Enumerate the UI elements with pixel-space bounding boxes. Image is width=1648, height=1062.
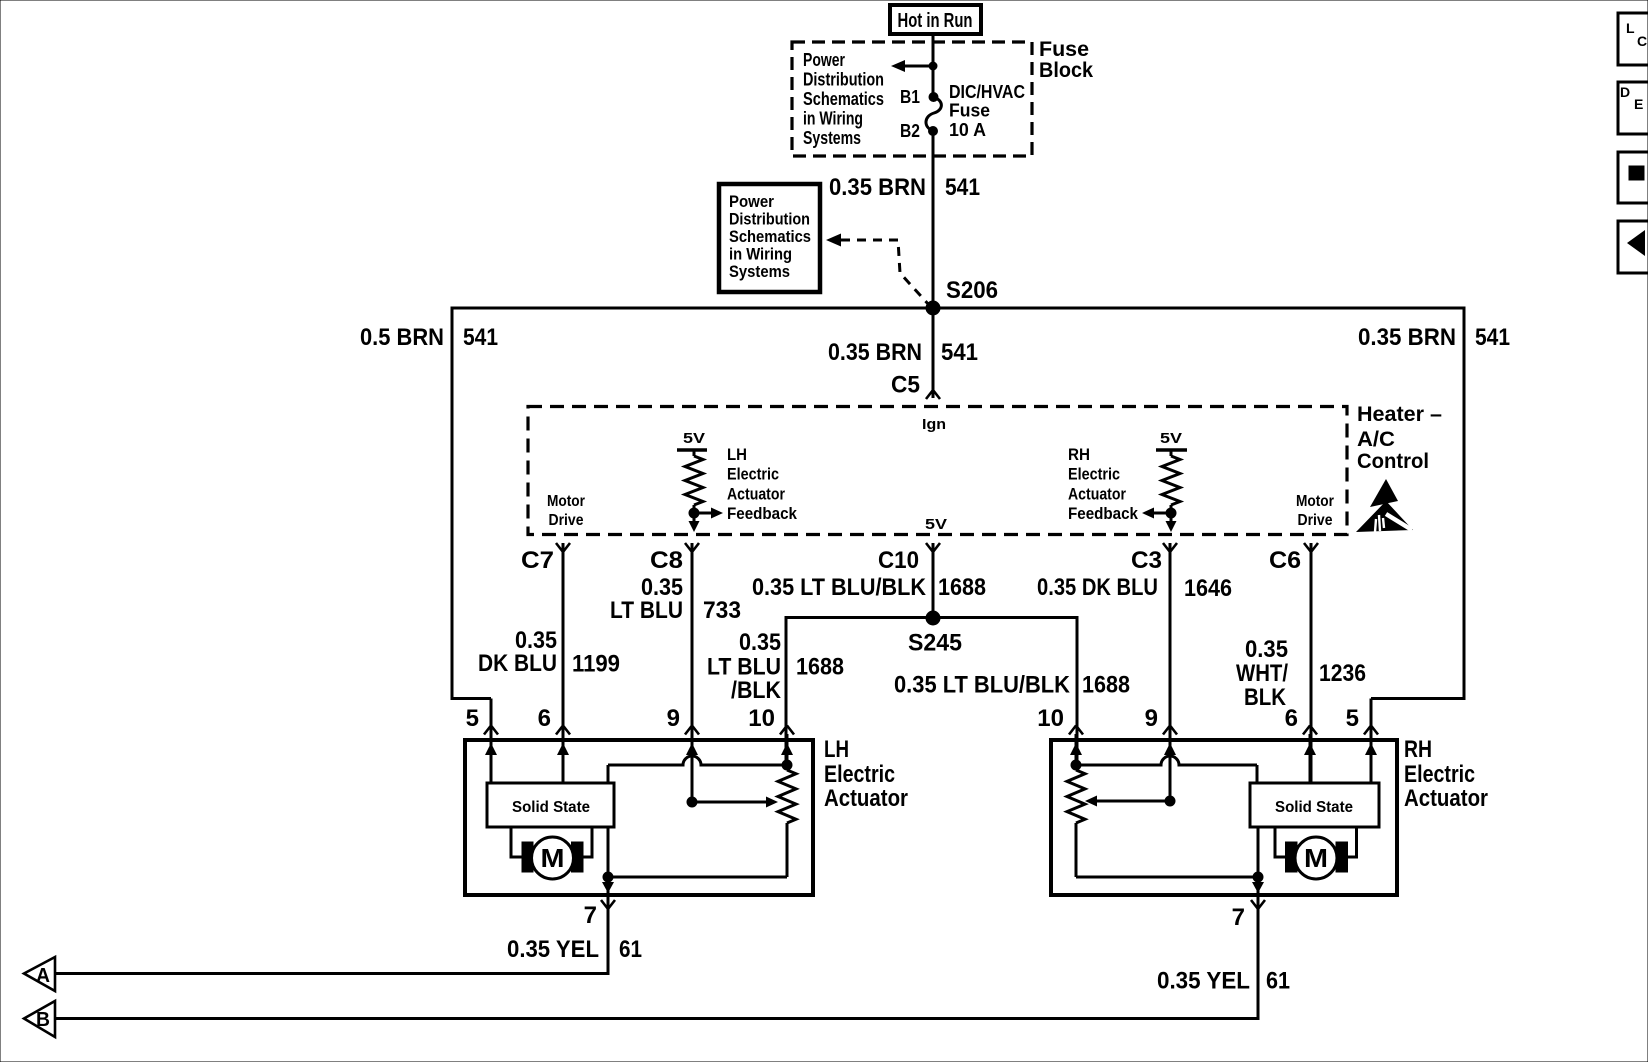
svg-text:Fuse: Fuse [1039,38,1089,61]
svg-text:1236: 1236 [1319,660,1366,687]
svg-text:0.35 BRN: 0.35 BRN [828,339,922,366]
svg-text:1199: 1199 [572,651,620,678]
svg-text:541: 541 [941,339,978,366]
svg-text:0.35 LT BLU/BLK: 0.35 LT BLU/BLK [894,672,1071,699]
svg-text:5V: 5V [683,430,705,447]
svg-text:LH: LH [727,445,747,464]
svg-text:0.5 BRN: 0.5 BRN [360,324,444,351]
svg-text:5: 5 [466,705,479,732]
svg-text:Solid State: Solid State [1275,799,1353,816]
svg-text:0.35 BRN: 0.35 BRN [1358,324,1456,351]
svg-text:5V: 5V [1160,430,1182,447]
svg-text:541: 541 [1475,324,1510,351]
svg-text:Power: Power [803,50,845,70]
svg-text:DIC/HVAC: DIC/HVAC [949,82,1025,102]
svg-text:9: 9 [667,705,680,732]
svg-text:5V: 5V [925,516,947,533]
svg-text:541: 541 [463,324,498,351]
svg-text:10: 10 [748,705,775,732]
svg-text:10: 10 [1037,705,1064,732]
svg-text:9: 9 [1145,705,1158,732]
svg-text:Solid State: Solid State [512,799,590,816]
svg-text:1688: 1688 [1082,672,1130,699]
svg-text:Actuator: Actuator [824,785,908,812]
svg-text:61: 61 [619,936,642,963]
svg-text:0.35 BRN: 0.35 BRN [829,174,926,201]
svg-text:Feedback: Feedback [1068,504,1138,523]
svg-text:Distribution: Distribution [803,70,884,90]
svg-text:Power: Power [729,192,774,211]
svg-text:in Wiring: in Wiring [803,109,863,129]
svg-text:Motor: Motor [547,493,585,510]
svg-text:Electric: Electric [727,465,779,484]
svg-text:0.35 DK BLU: 0.35 DK BLU [1037,574,1158,601]
svg-text:Feedback: Feedback [727,504,797,523]
svg-text:Electric: Electric [824,761,895,788]
svg-text:L: L [1626,20,1635,36]
svg-text:Schematics: Schematics [803,89,884,109]
svg-text:DK BLU: DK BLU [478,650,557,677]
svg-text:B: B [36,1009,50,1031]
svg-text:D: D [1620,84,1630,100]
svg-text:Actuator: Actuator [727,484,785,503]
svg-text:B2: B2 [900,121,920,141]
svg-text:1646: 1646 [1184,575,1232,602]
svg-text:Hot in Run: Hot in Run [898,10,973,32]
svg-text:733: 733 [703,597,741,624]
svg-text:A: A [36,965,50,987]
svg-text:LT BLU: LT BLU [610,597,683,624]
svg-text:Distribution: Distribution [729,210,810,229]
svg-text:Block: Block [1039,59,1093,82]
svg-text:BLK: BLK [1244,684,1287,711]
svg-text:0.35: 0.35 [1245,636,1288,663]
svg-text:7: 7 [1232,904,1245,931]
svg-text:C8: C8 [650,547,683,574]
svg-text:C5: C5 [891,372,920,399]
svg-text:S206: S206 [946,277,998,304]
svg-text:6: 6 [1285,705,1298,732]
svg-text:541: 541 [945,174,980,201]
svg-text:Drive: Drive [1298,512,1333,529]
svg-text:E: E [1634,96,1643,112]
svg-text:0.35 LT BLU/BLK: 0.35 LT BLU/BLK [752,574,927,601]
svg-text:Systems: Systems [729,262,790,281]
svg-text:Fuse: Fuse [949,101,990,121]
svg-text:C10: C10 [878,547,919,574]
svg-text:A/C: A/C [1357,428,1395,451]
svg-text:S245: S245 [908,630,962,657]
svg-text:in Wiring: in Wiring [729,245,792,264]
svg-text:0.35: 0.35 [739,629,781,656]
svg-text:Heater –: Heater – [1357,403,1442,426]
svg-text:Control: Control [1357,450,1429,473]
svg-text:C: C [1637,33,1647,49]
svg-text:Motor: Motor [1296,493,1334,510]
svg-text:Electric: Electric [1404,761,1475,788]
svg-text:C3: C3 [1131,547,1162,574]
svg-text:0.35 YEL: 0.35 YEL [1157,968,1250,995]
svg-text:RH: RH [1068,445,1090,464]
svg-text:1688: 1688 [938,574,986,601]
svg-text:Actuator: Actuator [1068,484,1126,503]
svg-text:1688: 1688 [796,654,844,681]
svg-text:B1: B1 [900,87,920,107]
svg-text:M: M [1304,843,1328,873]
svg-text:Schematics: Schematics [729,227,811,246]
svg-text:Actuator: Actuator [1404,785,1488,812]
svg-text:C7: C7 [521,547,554,574]
svg-text:Electric: Electric [1068,465,1120,484]
svg-text:/BLK: /BLK [731,677,782,704]
svg-text:10 A: 10 A [949,120,986,140]
svg-text:Drive: Drive [549,512,584,529]
svg-text:7: 7 [584,902,597,929]
svg-text:LH: LH [824,736,849,763]
svg-text:5: 5 [1346,705,1359,732]
svg-text:6: 6 [538,705,551,732]
svg-text:0.35 YEL: 0.35 YEL [507,936,599,963]
svg-text:C6: C6 [1269,547,1301,574]
svg-text:Ign: Ign [922,416,946,433]
svg-text:M: M [541,843,565,873]
svg-text:WHT/: WHT/ [1236,660,1288,687]
svg-text:RH: RH [1404,736,1432,763]
svg-text:61: 61 [1266,968,1290,995]
svg-text:Systems: Systems [803,128,861,148]
